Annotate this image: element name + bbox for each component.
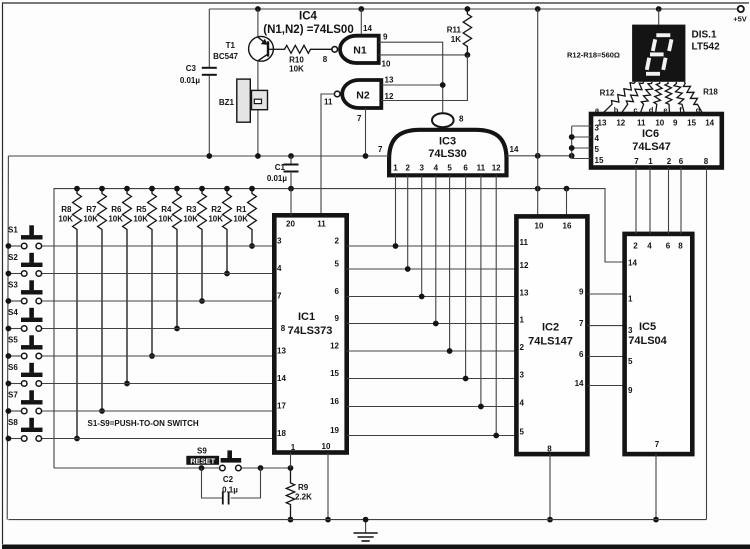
svg-text:S2: S2 bbox=[8, 253, 18, 262]
wire IC2 pin8 to ground bbox=[547, 454, 553, 522]
wire N1 pin10 to R11 bbox=[379, 52, 471, 58]
svg-text:2: 2 bbox=[667, 157, 672, 166]
wire +5V top rail bbox=[209, 8, 738, 10]
svg-text:C1: C1 bbox=[275, 163, 286, 172]
wire IC6 control bus pins 3,4,5,15 bbox=[569, 126, 591, 159]
note S1-S9 push-to-on bbox=[88, 419, 199, 428]
wire IC1 output row 12 bbox=[347, 350, 517, 352]
switch S7 bbox=[5, 390, 274, 414]
IC3 bottom pin numbers bbox=[393, 164, 501, 173]
svg-text:8: 8 bbox=[704, 157, 709, 166]
wire IC2 pin 9 to IC5 bbox=[587, 293, 624, 295]
svg-text:R10: R10 bbox=[289, 56, 304, 65]
svg-text:S5: S5 bbox=[8, 336, 18, 345]
wire display supply bbox=[658, 9, 660, 25]
svg-text:4: 4 bbox=[595, 134, 600, 143]
wire IC6 pin 2 to IC5 bbox=[668, 168, 670, 234]
junction on ground line bbox=[288, 153, 294, 159]
switch S6 bbox=[5, 363, 274, 387]
wire IC2 pin 7 to IC5 bbox=[587, 325, 624, 327]
svg-text:IC5: IC5 bbox=[639, 321, 656, 333]
wire IC3 input pin 4 bbox=[433, 175, 439, 326]
svg-text:9: 9 bbox=[628, 386, 633, 395]
svg-text:b: b bbox=[614, 106, 619, 115]
wire IC1 output row 5 bbox=[347, 268, 517, 270]
svg-text:C2: C2 bbox=[223, 475, 234, 484]
svg-text:11: 11 bbox=[477, 164, 486, 173]
capacitor C2 bbox=[202, 468, 261, 505]
resistor R4 bbox=[158, 186, 181, 332]
svg-text:13: 13 bbox=[385, 76, 394, 85]
switch S1 bbox=[5, 225, 274, 249]
segment letters a-g bbox=[595, 106, 701, 115]
resistor R14 bbox=[640, 82, 653, 114]
svg-text:R11: R11 bbox=[447, 26, 462, 35]
svg-text:20: 20 bbox=[286, 220, 295, 229]
svg-text:3: 3 bbox=[520, 371, 525, 380]
svg-text:5: 5 bbox=[447, 164, 452, 173]
svg-text:74LS147: 74LS147 bbox=[528, 336, 573, 348]
svg-text:5: 5 bbox=[520, 428, 525, 437]
op-amp gate IC3 74LS30 bbox=[378, 113, 519, 175]
wire IC1 output row 2 bbox=[347, 245, 517, 247]
svg-text:4: 4 bbox=[434, 164, 439, 173]
wire T1 emitter to BZ1 bbox=[257, 61, 259, 156]
resistor R11 bbox=[447, 9, 472, 55]
svg-text:1: 1 bbox=[520, 316, 525, 325]
svg-text:S3: S3 bbox=[8, 281, 18, 290]
resistor R3 bbox=[183, 186, 206, 304]
svg-text:10K: 10K bbox=[158, 215, 173, 224]
svg-text:7: 7 bbox=[634, 157, 639, 166]
IC IC2 74LS147 bbox=[516, 216, 587, 454]
wire T1 collector bbox=[257, 9, 259, 37]
svg-text:16: 16 bbox=[330, 397, 339, 406]
wire left ground bus bbox=[7, 156, 8, 520]
wire IC6 pin 1 to IC5 bbox=[649, 168, 651, 234]
svg-text:1K: 1K bbox=[451, 35, 461, 44]
svg-text:(N1,N2) =74LS00: (N1,N2) =74LS00 bbox=[263, 24, 353, 36]
svg-text:S4: S4 bbox=[8, 308, 18, 317]
svg-text:S7: S7 bbox=[8, 391, 18, 400]
resistor R18 bbox=[683, 82, 703, 114]
wire IC3 input pin 11 bbox=[478, 175, 484, 409]
svg-text:IC2: IC2 bbox=[542, 322, 559, 334]
svg-text:19: 19 bbox=[330, 426, 339, 435]
wire IC3 input pin 12 bbox=[493, 175, 499, 438]
svg-text:10K: 10K bbox=[58, 215, 73, 224]
svg-text:18: 18 bbox=[277, 429, 286, 438]
resistor R13 bbox=[621, 82, 644, 114]
svg-text:11: 11 bbox=[317, 220, 326, 229]
junction on pull-up rail bbox=[288, 186, 294, 192]
svg-text:g: g bbox=[696, 106, 701, 115]
svg-text:2: 2 bbox=[405, 164, 410, 173]
svg-text:S9: S9 bbox=[197, 447, 207, 456]
svg-text:R18: R18 bbox=[703, 88, 718, 97]
svg-text:10K: 10K bbox=[289, 65, 304, 74]
junction on pull-up rail bbox=[535, 186, 541, 192]
svg-text:6: 6 bbox=[579, 350, 584, 359]
svg-text:74LS47: 74LS47 bbox=[632, 141, 671, 153]
wire IC3 input pin 2 bbox=[405, 175, 411, 272]
svg-text:BC547: BC547 bbox=[213, 52, 238, 61]
node +5V terminal bbox=[733, 6, 747, 24]
svg-text:N1: N1 bbox=[353, 45, 367, 57]
svg-text:74LS373: 74LS373 bbox=[288, 325, 333, 337]
resistor R2 bbox=[208, 186, 231, 277]
svg-text:10K: 10K bbox=[208, 215, 223, 224]
junction on +5V rail bbox=[535, 6, 541, 12]
wire IC1 pin1 bbox=[290, 453, 292, 469]
svg-text:8: 8 bbox=[459, 115, 464, 124]
resistor R8 bbox=[58, 186, 81, 442]
svg-text:4: 4 bbox=[647, 242, 652, 251]
display DIS.1 LT542 bbox=[632, 25, 720, 82]
svg-text:17: 17 bbox=[277, 402, 286, 411]
svg-text:R12: R12 bbox=[600, 89, 615, 98]
wire IC3 input pin 1 bbox=[393, 175, 399, 249]
wire N2 pin7 down bbox=[365, 108, 367, 156]
svg-text:14: 14 bbox=[705, 119, 714, 128]
svg-text:N2: N2 bbox=[356, 89, 370, 101]
svg-text:R5: R5 bbox=[136, 205, 147, 214]
note R12-R18 value bbox=[567, 51, 620, 60]
svg-text:4: 4 bbox=[277, 264, 282, 273]
svg-text:3: 3 bbox=[419, 164, 424, 173]
svg-text:9: 9 bbox=[673, 119, 678, 128]
wire IC1 pin10 to ground bbox=[325, 453, 331, 523]
svg-text:10: 10 bbox=[655, 119, 664, 128]
svg-text:6: 6 bbox=[335, 287, 340, 296]
wire IC3 input pin 6 bbox=[463, 175, 469, 381]
IC4 label bbox=[263, 11, 353, 37]
resistor R12 bbox=[602, 82, 636, 114]
switch S5 bbox=[5, 335, 274, 359]
wire IC1 output row 9 bbox=[347, 323, 517, 325]
wire IC3 pin14 to IC6 bus bbox=[507, 153, 575, 159]
wire IC6 pin 6 to IC5 bbox=[680, 168, 682, 234]
svg-text:12: 12 bbox=[520, 261, 529, 270]
capacitor C1 bbox=[267, 156, 299, 189]
svg-text:74LS30: 74LS30 bbox=[428, 148, 467, 160]
svg-text:1: 1 bbox=[628, 295, 633, 304]
svg-text:9: 9 bbox=[579, 288, 584, 297]
wire N1 pin9 to IC3 bubble bbox=[379, 42, 443, 113]
svg-text:6: 6 bbox=[666, 242, 671, 251]
svg-text:14: 14 bbox=[510, 145, 519, 154]
ground bbox=[354, 517, 378, 541]
wire R10 to N1 output bbox=[331, 48, 333, 50]
R18 label bbox=[703, 88, 718, 97]
svg-text:9: 9 bbox=[335, 314, 340, 323]
junction on pull-up rail bbox=[564, 186, 570, 192]
wire N2 output to IC1 pin11 bbox=[321, 94, 334, 215]
svg-text:7: 7 bbox=[579, 319, 584, 328]
svg-text:LT542: LT542 bbox=[692, 42, 721, 53]
svg-text:10: 10 bbox=[382, 60, 391, 69]
svg-text:3: 3 bbox=[628, 326, 633, 335]
svg-text:14: 14 bbox=[575, 379, 584, 388]
svg-text:11: 11 bbox=[324, 98, 333, 107]
svg-text:R6: R6 bbox=[111, 205, 122, 214]
wire IC1 output row 16 bbox=[347, 406, 517, 408]
svg-text:R7: R7 bbox=[86, 205, 97, 214]
wire N1 pin14 from rail bbox=[361, 9, 372, 36]
svg-text:1: 1 bbox=[291, 443, 296, 452]
wire IC1 pin20 stub bbox=[290, 189, 292, 216]
svg-text:C3: C3 bbox=[186, 64, 197, 73]
wire IC2 pin16 stub bbox=[566, 189, 568, 217]
svg-text:8: 8 bbox=[281, 324, 286, 333]
svg-text:12: 12 bbox=[385, 92, 394, 101]
resistor R5 bbox=[133, 186, 156, 359]
svg-text:2.2K: 2.2K bbox=[295, 493, 312, 502]
switch S4 bbox=[5, 308, 274, 332]
resistor R1 bbox=[233, 186, 256, 249]
wire Vcc pull-up rail bbox=[54, 189, 625, 468]
wire IC5 pin7 to ground bbox=[653, 454, 659, 522]
junction on ground line bbox=[206, 153, 212, 159]
buzzer BZ1 bbox=[219, 79, 268, 122]
svg-text:IC3: IC3 bbox=[439, 136, 456, 148]
wire IC1 output row 19 bbox=[347, 435, 517, 437]
junction on +5V rail bbox=[358, 6, 364, 12]
svg-text:0.01µ: 0.01µ bbox=[267, 174, 288, 183]
resistor R16 bbox=[665, 82, 672, 114]
wire C3 branch bbox=[208, 9, 210, 156]
svg-text:14: 14 bbox=[277, 374, 286, 383]
svg-text:11: 11 bbox=[637, 119, 646, 128]
op-amp gate N2 bbox=[324, 76, 394, 124]
svg-text:13: 13 bbox=[520, 289, 529, 298]
svg-text:6: 6 bbox=[463, 164, 468, 173]
svg-text:8: 8 bbox=[547, 445, 552, 454]
svg-text:1: 1 bbox=[393, 164, 398, 173]
svg-text:2: 2 bbox=[520, 343, 525, 352]
svg-text:14: 14 bbox=[628, 259, 637, 268]
svg-text:10K: 10K bbox=[133, 215, 148, 224]
svg-text:R4: R4 bbox=[161, 205, 172, 214]
svg-text:d: d bbox=[649, 106, 654, 115]
svg-text:IC6: IC6 bbox=[642, 128, 659, 140]
svg-text:12: 12 bbox=[492, 164, 501, 173]
wire IC3 input pin 3 bbox=[419, 175, 425, 299]
wire ground line bbox=[8, 155, 389, 157]
svg-text:R2: R2 bbox=[211, 205, 222, 214]
svg-text:8: 8 bbox=[678, 242, 683, 251]
resistor R15 bbox=[654, 82, 662, 114]
svg-text:15: 15 bbox=[330, 369, 339, 378]
svg-text:8: 8 bbox=[323, 55, 328, 64]
svg-text:c: c bbox=[633, 106, 637, 115]
wire N2 pin13 bbox=[381, 82, 445, 88]
resistor R9 bbox=[286, 468, 312, 522]
svg-text:13: 13 bbox=[598, 119, 607, 128]
svg-text:10K: 10K bbox=[83, 215, 98, 224]
svg-text:RESET: RESET bbox=[190, 456, 215, 465]
wire IC6 pin8 to ground bbox=[706, 168, 708, 520]
transistor T1 bbox=[213, 36, 284, 61]
capacitor C3 bbox=[180, 64, 217, 85]
svg-text:+5V: +5V bbox=[733, 15, 747, 24]
svg-text:15: 15 bbox=[687, 119, 696, 128]
switch S8 bbox=[5, 418, 274, 442]
svg-text:DIS.1: DIS.1 bbox=[692, 30, 717, 41]
svg-text:2: 2 bbox=[335, 237, 340, 246]
resistor R7 bbox=[83, 186, 106, 414]
junction on +5V rail bbox=[465, 6, 471, 12]
svg-text:7: 7 bbox=[655, 440, 660, 449]
junction on +5V rail bbox=[255, 6, 261, 12]
switch S2 bbox=[5, 253, 274, 277]
wire IC3 input pin 5 bbox=[447, 175, 453, 354]
svg-text:S6: S6 bbox=[8, 363, 18, 372]
svg-text:5: 5 bbox=[335, 260, 340, 269]
IC IC5 74LS04 bbox=[625, 234, 693, 454]
svg-text:IC1: IC1 bbox=[298, 311, 315, 323]
svg-text:S1-S9=PUSH-TO-ON SWITCH: S1-S9=PUSH-TO-ON SWITCH bbox=[88, 419, 199, 428]
svg-text:10K: 10K bbox=[233, 215, 248, 224]
svg-text:74LS04: 74LS04 bbox=[628, 335, 667, 347]
junction on +5V rail bbox=[656, 6, 662, 12]
IC IC6 74LS47 bbox=[591, 114, 722, 168]
resistor R17 bbox=[674, 82, 685, 114]
wire IC1 output row 6 bbox=[347, 296, 517, 298]
svg-text:BZ1: BZ1 bbox=[219, 98, 235, 107]
svg-text:12: 12 bbox=[330, 342, 339, 351]
resistor R10 bbox=[284, 45, 332, 73]
svg-text:1: 1 bbox=[648, 157, 653, 166]
svg-text:10: 10 bbox=[322, 442, 331, 451]
svg-text:16: 16 bbox=[563, 222, 572, 231]
svg-text:R1: R1 bbox=[236, 205, 247, 214]
R12 label bbox=[600, 89, 615, 98]
svg-text:4: 4 bbox=[520, 399, 525, 408]
switch S3 bbox=[5, 280, 274, 304]
svg-text:S8: S8 bbox=[8, 418, 18, 427]
wire IC2 pin 14 to IC5 bbox=[587, 385, 624, 387]
svg-text:11: 11 bbox=[520, 238, 529, 247]
svg-text:7: 7 bbox=[378, 145, 383, 154]
svg-text:e: e bbox=[663, 106, 667, 115]
svg-text:14: 14 bbox=[363, 24, 372, 33]
svg-text:R9: R9 bbox=[298, 483, 309, 492]
svg-text:R12-R18=560Ω: R12-R18=560Ω bbox=[567, 51, 620, 60]
svg-text:10: 10 bbox=[535, 222, 544, 231]
svg-text:S1: S1 bbox=[8, 226, 18, 235]
svg-text:3: 3 bbox=[595, 124, 600, 133]
svg-text:10K: 10K bbox=[183, 215, 198, 224]
wire IC1 output row 15 bbox=[347, 378, 517, 380]
svg-text:3: 3 bbox=[277, 237, 282, 246]
wire R11 to N2 pin12 bbox=[381, 55, 467, 101]
op-amp gate N1 bbox=[323, 33, 391, 69]
svg-text:0.01µ: 0.01µ bbox=[180, 76, 201, 85]
svg-text:7: 7 bbox=[277, 292, 282, 301]
svg-text:5: 5 bbox=[595, 145, 600, 154]
svg-text:T1: T1 bbox=[226, 41, 236, 50]
svg-text:R8: R8 bbox=[61, 205, 72, 214]
svg-text:15: 15 bbox=[595, 156, 604, 165]
wire IC6 pin 7 to IC5 bbox=[635, 168, 637, 234]
svg-text:6: 6 bbox=[679, 157, 684, 166]
svg-text:9: 9 bbox=[383, 33, 388, 42]
svg-text:13: 13 bbox=[277, 347, 286, 356]
svg-text:10K: 10K bbox=[108, 215, 123, 224]
svg-text:2: 2 bbox=[633, 242, 638, 251]
svg-text:5: 5 bbox=[628, 357, 633, 366]
wire IC2 pin 6 to IC5 bbox=[587, 356, 624, 358]
wire reset row bbox=[54, 465, 293, 471]
wire +5V drop to IC2 pin10 bbox=[537, 9, 539, 216]
junction on ground line bbox=[255, 153, 261, 159]
resistor R6 bbox=[108, 186, 131, 387]
svg-text:12: 12 bbox=[616, 119, 625, 128]
svg-text:R3: R3 bbox=[186, 205, 197, 214]
switch S9 bbox=[186, 447, 241, 471]
svg-text:0.1µ: 0.1µ bbox=[222, 486, 238, 495]
svg-text:IC4: IC4 bbox=[299, 11, 318, 23]
wire ground rail bbox=[8, 519, 706, 521]
junction on ground line bbox=[363, 153, 369, 159]
IC IC1 74LS373 bbox=[274, 215, 346, 452]
svg-text:7: 7 bbox=[357, 114, 362, 123]
